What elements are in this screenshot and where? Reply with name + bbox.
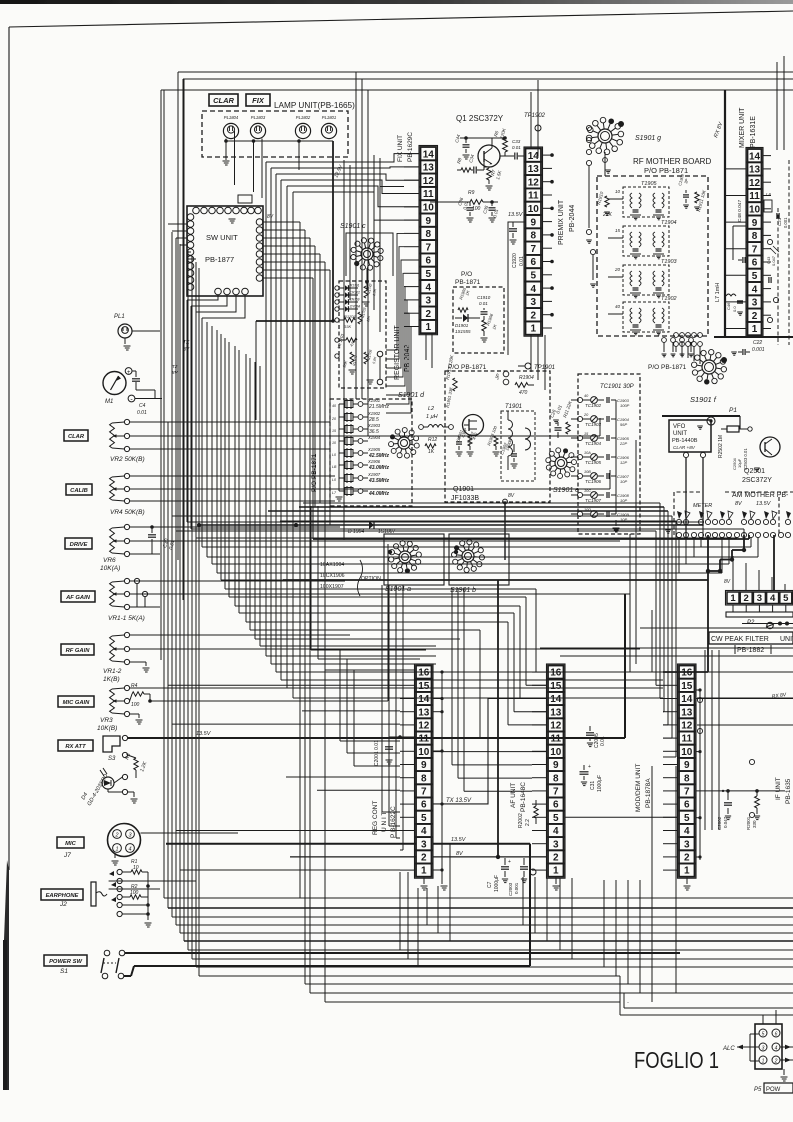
svg-text:C2001 0.01: C2001 0.01 xyxy=(374,740,380,766)
svg-text:SW UNIT: SW UNIT xyxy=(206,233,238,242)
svg-text:10B: 10B xyxy=(584,470,591,474)
svg-text:22P: 22P xyxy=(619,441,627,446)
wire mod dem pin14 right xyxy=(697,698,793,700)
svg-text:7: 7 xyxy=(553,787,559,798)
wire lamp drops xyxy=(225,139,227,157)
svg-text:8V: 8V xyxy=(508,493,515,499)
ground PL1 xyxy=(124,338,126,344)
wire mixer left stubs xyxy=(725,168,746,170)
svg-text:C1920: C1920 xyxy=(512,253,518,268)
svg-text:X1906: X1906 xyxy=(367,459,381,464)
svg-text:C33: C33 xyxy=(512,139,521,144)
wire pot elbow verticals xyxy=(599,418,601,436)
wire bottom bus horizontals xyxy=(164,897,793,899)
SW unit small fix box xyxy=(238,195,252,203)
svg-text:100: 100 xyxy=(131,702,140,708)
svg-text:15: 15 xyxy=(418,681,430,692)
wire outer frame loop 3 xyxy=(161,89,793,91)
svg-text:7: 7 xyxy=(684,787,690,798)
svg-text:PL1802: PL1802 xyxy=(296,115,311,120)
potentiometer VR3 xyxy=(124,685,129,690)
svg-text:2: 2 xyxy=(114,833,118,839)
svg-text:P/O PB-1871: P/O PB-1871 xyxy=(648,364,687,371)
svg-text:100P: 100P xyxy=(620,403,630,408)
svg-text:T1904: T1904 xyxy=(661,220,677,226)
wire reg pin long feeds xyxy=(168,684,400,686)
svg-text:4: 4 xyxy=(770,593,776,604)
coax plug P1 xyxy=(727,426,739,432)
svg-text:TC1906: TC1906 xyxy=(585,479,602,484)
svg-text:1: 1 xyxy=(421,866,427,877)
wire P1 heavy xyxy=(662,415,740,417)
svg-text:C22: C22 xyxy=(753,340,762,346)
ground tc bank xyxy=(615,520,617,526)
svg-text:J2: J2 xyxy=(59,901,67,908)
svg-text:S1901 d: S1901 d xyxy=(398,392,425,399)
rf board bottom contact row xyxy=(674,333,679,338)
svg-text:T1902: T1902 xyxy=(661,296,677,302)
capacitor C2005 0.01 xyxy=(586,732,594,734)
svg-text:AF GAIN: AF GAIN xyxy=(65,595,91,601)
svg-text:CLAR +8V: CLAR +8V xyxy=(673,445,696,450)
svg-text:13.5V: 13.5V xyxy=(451,837,467,843)
svg-text:1000μF: 1000μF xyxy=(494,875,500,892)
svg-text:10: 10 xyxy=(528,204,540,215)
svg-text:PB-1635: PB-1635 xyxy=(785,778,792,804)
rotary switch S1901g xyxy=(598,129,612,143)
svg-text:3: 3 xyxy=(421,839,427,850)
svg-text:U N I T: U N I T xyxy=(381,812,388,832)
svg-text:2: 2 xyxy=(774,1058,778,1064)
svg-text:REGISTOR UNIT: REGISTOR UNIT xyxy=(394,325,401,380)
svg-text:CLAR: CLAR xyxy=(213,96,234,105)
svg-text:1: 1 xyxy=(115,847,118,853)
svg-text:4: 4 xyxy=(684,826,690,837)
meter contact row upper xyxy=(676,519,681,524)
svg-text:VR1-2: VR1-2 xyxy=(103,668,122,675)
svg-text:5: 5 xyxy=(530,270,536,281)
svg-text:8V: 8V xyxy=(267,214,274,220)
svg-text:7: 7 xyxy=(425,242,431,253)
reg cont stubs xyxy=(400,671,415,673)
svg-text:8: 8 xyxy=(752,231,758,242)
rotary switch S1901f xyxy=(702,360,716,374)
svg-text:L0: L0 xyxy=(332,453,336,457)
wire main staircase xyxy=(186,300,188,522)
svg-text:MIC GAIN: MIC GAIN xyxy=(63,700,91,706)
trimmer TC1908 / C1909 10P xyxy=(577,511,582,516)
meter contact row lower xyxy=(676,532,681,537)
svg-text:13: 13 xyxy=(528,164,540,175)
connector strip MIXER 14pin xyxy=(746,148,763,337)
svg-text:1S1007: 1S1007 xyxy=(378,529,395,535)
capacitor C2002 0.047 xyxy=(727,791,729,800)
svg-text:10μF: 10μF xyxy=(737,458,742,468)
svg-text:J7: J7 xyxy=(63,852,71,859)
svg-text:S1: S1 xyxy=(60,968,68,975)
svg-text:4: 4 xyxy=(128,847,131,853)
svg-text:5: 5 xyxy=(421,813,427,824)
svg-text:VR3: VR3 xyxy=(100,717,113,724)
wire mod strip right rail xyxy=(699,690,701,860)
ground registor unit xyxy=(367,379,374,381)
ground PB-1871 box xyxy=(483,331,485,336)
rotary switch S1901a xyxy=(399,551,411,563)
svg-text:3: 3 xyxy=(425,296,431,307)
svg-text:15: 15 xyxy=(550,681,562,692)
svg-text:TX 13.5V: TX 13.5V xyxy=(446,798,472,804)
wire outer frame loop 2 xyxy=(183,78,793,80)
wire premix stubs right xyxy=(543,154,553,156)
svg-text:S1901 g: S1901 g xyxy=(635,135,661,142)
svg-text:20: 20 xyxy=(614,267,621,272)
rotary g stem xyxy=(604,152,606,176)
svg-text:4: 4 xyxy=(425,282,431,293)
wire mixer bottom heavy xyxy=(714,336,793,338)
wire 12.5V heavy drop from lamp xyxy=(332,206,334,321)
svg-text:40: 40 xyxy=(332,404,336,408)
ground SW unit top xyxy=(229,218,236,220)
control label EARPHONE xyxy=(41,889,83,900)
connector strip FIX unit 14pin xyxy=(419,146,438,335)
svg-text:M1: M1 xyxy=(105,399,113,405)
svg-text:P1: P1 xyxy=(729,407,737,414)
af unit stubs xyxy=(532,671,547,673)
svg-text:56P: 56P xyxy=(620,422,627,427)
svg-text:1: 1 xyxy=(684,866,690,877)
svg-text:10A: 10A xyxy=(584,451,591,455)
svg-text:UNIT: UNIT xyxy=(780,636,793,643)
rotary f contacts upper xyxy=(662,338,667,343)
svg-text:12: 12 xyxy=(418,721,430,732)
capacitor C1920 0.01 xyxy=(509,228,517,230)
svg-text:LAMP UNIT(PB-1665): LAMP UNIT(PB-1665) xyxy=(274,101,355,110)
connector strip PREMIX 14pin xyxy=(524,147,543,336)
trimmer TC1906 / C1907 10P xyxy=(577,473,582,478)
meter capacitor C4 xyxy=(132,378,140,380)
svg-text:C31: C31 xyxy=(590,781,596,790)
svg-text:CW PEAK FILTER: CW PEAK FILTER xyxy=(711,636,769,643)
svg-text:R1904: R1904 xyxy=(519,375,534,381)
wire AF pin5 to MOD xyxy=(565,816,678,818)
rotary S1901c drops xyxy=(366,268,368,290)
svg-text:RF GAIN: RF GAIN xyxy=(66,648,91,654)
wire meter heavy to P2 pin4 xyxy=(773,535,775,591)
svg-text:ALC: ALC xyxy=(722,1046,735,1052)
wire meter row drops xyxy=(678,537,680,573)
svg-text:1: 1 xyxy=(752,324,758,335)
svg-text:VFO: VFO xyxy=(673,424,686,430)
svg-text:1: 1 xyxy=(425,322,431,333)
trimmer TC1905 / C1906 12P xyxy=(577,454,582,459)
svg-text:VR2 50K(B): VR2 50K(B) xyxy=(110,456,145,463)
svg-text:L7 1mH: L7 1mH xyxy=(715,283,721,302)
wire R1 R2 junction xyxy=(147,872,149,914)
svg-text:2: 2 xyxy=(744,593,749,604)
ground VR3 xyxy=(130,713,139,715)
svg-text:1S1555: 1S1555 xyxy=(455,329,471,334)
switch S3 xyxy=(103,736,120,752)
svg-text:REG CONT: REG CONT xyxy=(372,801,379,835)
potentiometer VR1701 47K xyxy=(335,338,339,342)
svg-text:10AX1904: 10AX1904 xyxy=(320,562,344,568)
transformer group T1905 xyxy=(623,187,669,217)
ground reg cont xyxy=(423,878,425,884)
ALC left bracket wire xyxy=(749,1034,751,1061)
SW unit left pin column xyxy=(187,214,194,221)
svg-text:10K(B): 10K(B) xyxy=(97,725,117,732)
svg-text:T1901: T1901 xyxy=(505,404,522,410)
VFO unit box PB-1440B xyxy=(669,420,711,452)
wire fix bottom drops xyxy=(425,334,427,360)
wire FIX pin upper fan xyxy=(404,153,419,155)
svg-text:C4: C4 xyxy=(139,403,146,409)
wire rf bottom to s1901f xyxy=(675,346,677,352)
svg-text:P/O: P/O xyxy=(461,271,472,278)
svg-text:LB: LB xyxy=(332,465,337,469)
svg-text:10CX1906: 10CX1906 xyxy=(320,573,345,579)
svg-text:8: 8 xyxy=(553,773,559,784)
svg-text:PB-2044: PB-2044 xyxy=(569,205,576,232)
ground J7 xyxy=(114,853,116,858)
control label MIC GAIN xyxy=(58,696,94,707)
wire mod dem pin7 right xyxy=(697,790,786,792)
svg-text:10: 10 xyxy=(332,441,336,445)
svg-text:10K(A): 10K(A) xyxy=(100,565,120,572)
wire TX 13.5V to AF xyxy=(434,699,547,804)
svg-text:2: 2 xyxy=(425,309,431,320)
svg-text:0.001: 0.001 xyxy=(752,347,765,353)
box S1901a xyxy=(384,534,444,585)
svg-text:EARPHONE: EARPHONE xyxy=(46,893,80,899)
svg-text:13: 13 xyxy=(749,165,761,176)
svg-text:0.047: 0.047 xyxy=(771,255,776,266)
svg-text:POW: POW xyxy=(766,1087,781,1093)
wire 13.5V feed xyxy=(128,737,625,739)
svg-text:C2003: C2003 xyxy=(508,882,513,896)
svg-text:AF UNIT: AF UNIT xyxy=(510,783,517,808)
wire right of MOD strip horizontals xyxy=(697,671,793,673)
svg-text:L6: L6 xyxy=(766,192,772,197)
svg-text:6: 6 xyxy=(752,258,758,269)
svg-text:13: 13 xyxy=(550,707,562,718)
wire VFO heavy drops xyxy=(685,458,687,539)
transistor Q2501 xyxy=(760,437,780,457)
dashed box REGISTOR UNIT PB-2042 xyxy=(339,281,386,388)
svg-text:5: 5 xyxy=(553,813,559,824)
wire frame heavy vertical near mixer xyxy=(724,90,726,337)
svg-text:4: 4 xyxy=(775,1045,778,1051)
control label CLAR xyxy=(64,430,88,441)
wire M1 to bus xyxy=(135,398,162,400)
svg-text:1: 1 xyxy=(730,593,736,604)
wire power sw feeds xyxy=(125,952,680,954)
label FIX switch box xyxy=(246,94,270,106)
meter plus terminal xyxy=(125,368,132,375)
svg-text:0.047: 0.047 xyxy=(723,816,728,828)
control label POWER SW xyxy=(44,955,87,966)
svg-text:TC1905: TC1905 xyxy=(585,460,602,465)
svg-text:3: 3 xyxy=(530,297,536,308)
wire SW left pin links xyxy=(168,223,187,225)
ground ALC xyxy=(783,1069,785,1075)
svg-text:PB-1871: PB-1871 xyxy=(455,279,481,286)
svg-text:100: 100 xyxy=(472,206,481,212)
svg-text:PL1804: PL1804 xyxy=(224,115,239,120)
svg-text:8: 8 xyxy=(684,773,690,784)
svg-text:POWER SW: POWER SW xyxy=(49,959,82,965)
svg-text:FOGLIO 1: FOGLIO 1 xyxy=(634,1047,719,1073)
svg-text:C48 0.047: C48 0.047 xyxy=(737,200,743,222)
wire meter heavy staircase xyxy=(748,535,750,539)
SW unit top pin row xyxy=(193,207,200,214)
svg-text:33K: 33K xyxy=(344,324,351,329)
wire right side horizontals xyxy=(540,647,793,649)
svg-text:VR1-1 5K(A): VR1-1 5K(A) xyxy=(108,615,145,622)
svg-text:9: 9 xyxy=(421,760,427,771)
svg-text:S1901 f: S1901 f xyxy=(690,395,717,404)
svg-text:S1901 e: S1901 e xyxy=(553,487,579,494)
resistor R7 1.5K xyxy=(487,168,492,180)
resistor R2001 330 xyxy=(755,796,760,808)
transformer T1901 xyxy=(501,411,535,481)
svg-text:0.0: 0.0 xyxy=(732,306,737,312)
svg-text:9: 9 xyxy=(425,216,431,227)
svg-text:12: 12 xyxy=(423,176,435,187)
svg-text:6: 6 xyxy=(684,800,690,811)
wire lower reg feeds xyxy=(311,649,426,651)
svg-text:PB-1877: PB-1877 xyxy=(205,255,234,264)
svg-text:1K: 1K xyxy=(428,449,435,455)
svg-text:7: 7 xyxy=(530,244,536,255)
svg-text:R2502 1M: R2502 1M xyxy=(718,435,724,458)
resistor R1702 18K xyxy=(350,352,354,364)
svg-text:4: 4 xyxy=(752,284,758,295)
diode D1901 1S1555 xyxy=(455,317,462,319)
SW unit box PB-1877 xyxy=(187,206,263,296)
earphone jack J2 xyxy=(91,882,96,906)
ground J2 xyxy=(147,914,149,920)
wire lamp common xyxy=(226,140,333,142)
svg-text:RX ATT: RX ATT xyxy=(65,744,86,750)
resistor R1906 1K xyxy=(482,320,486,331)
svg-text:CALIB: CALIB xyxy=(70,488,88,494)
svg-text:3: 3 xyxy=(762,1045,765,1051)
svg-text:P5: P5 xyxy=(754,1087,762,1093)
rotary switch S1901c xyxy=(361,248,373,260)
ground af unit xyxy=(555,878,557,884)
ground R7 xyxy=(488,180,490,184)
wire FIX pin lower fan xyxy=(386,233,404,350)
registor unit right contacts xyxy=(377,351,383,357)
potentiometer VR4 xyxy=(124,473,129,478)
svg-text:D 1904: D 1904 xyxy=(348,529,364,535)
potentiometer VR1-2 xyxy=(124,632,129,637)
svg-text:10: 10 xyxy=(615,189,621,194)
transformer group T1902 xyxy=(623,302,669,332)
svg-text:+: + xyxy=(508,859,511,865)
mixer right dashed rail xyxy=(777,208,779,345)
svg-text:13.5V: 13.5V xyxy=(756,501,772,507)
wire tc drop verticals xyxy=(629,534,631,672)
ALC connector box xyxy=(755,1024,782,1069)
svg-text:X1903: X1903 xyxy=(367,423,381,428)
svg-text:14: 14 xyxy=(749,151,761,162)
wire reg pin10 to AF xyxy=(434,751,547,753)
box S1901c xyxy=(346,233,393,276)
capacitor C31 1000uF xyxy=(580,771,589,773)
svg-text:R1791: R1791 xyxy=(350,284,360,288)
trimmer TC1902 / C1903 100P xyxy=(577,397,582,402)
ground VFO xyxy=(697,425,703,427)
svg-text:AM MOTHER PB-: AM MOTHER PB- xyxy=(732,492,789,499)
svg-text:16: 16 xyxy=(418,668,430,679)
svg-text:11: 11 xyxy=(418,734,429,745)
jumper JP xyxy=(503,371,509,377)
vfo coax top xyxy=(707,417,715,425)
svg-text:10: 10 xyxy=(550,747,562,758)
svg-text:0.001: 0.001 xyxy=(514,882,519,894)
svg-text:6: 6 xyxy=(553,800,559,811)
svg-text:10: 10 xyxy=(418,747,430,758)
FET Q1901 xyxy=(463,415,484,436)
wire crystal box drop bundle xyxy=(310,506,312,650)
svg-text:FIX UNIT: FIX UNIT xyxy=(397,135,404,162)
svg-text:9: 9 xyxy=(684,760,690,771)
wire P2 top feeds xyxy=(732,556,734,590)
svg-text:11: 11 xyxy=(423,189,434,200)
svg-text:TP1902: TP1902 xyxy=(524,113,546,119)
trimmer TC1907 / C1908 10P xyxy=(577,492,582,497)
svg-text:0.01: 0.01 xyxy=(600,736,606,746)
dashed box RF mother board xyxy=(597,176,708,336)
wire s1901ab link xyxy=(388,550,392,554)
wire premix bottom drops xyxy=(530,335,532,372)
wire outer frame loop 1 xyxy=(178,71,793,73)
wire SW bottom pin drops xyxy=(187,295,218,300)
svg-text:DRIVE: DRIVE xyxy=(70,542,89,548)
svg-text:C2503 0.01: C2503 0.01 xyxy=(743,448,748,470)
svg-text:15: 15 xyxy=(615,228,621,233)
svg-text:T1903: T1903 xyxy=(661,259,678,265)
svg-text:T2: T2 xyxy=(172,364,178,369)
svg-text:11: 11 xyxy=(681,734,692,745)
svg-text:11: 11 xyxy=(749,191,760,202)
svg-text:14: 14 xyxy=(528,151,540,162)
svg-text:0.01: 0.01 xyxy=(479,301,488,306)
ground meter row xyxy=(668,521,674,523)
svg-text:PL1803: PL1803 xyxy=(251,115,266,120)
svg-text:TC1903: TC1903 xyxy=(585,422,602,427)
wire crystal drops to reg xyxy=(339,650,341,741)
svg-text:CLAR: CLAR xyxy=(68,434,85,440)
svg-text:6: 6 xyxy=(425,256,431,267)
svg-text:7: 7 xyxy=(421,787,427,798)
svg-text:16: 16 xyxy=(681,668,693,679)
svg-text:12: 12 xyxy=(528,177,540,188)
svg-text:P/O PB-1871: P/O PB-1871 xyxy=(448,364,487,371)
wire premix strip top feeds xyxy=(530,92,532,149)
svg-text:FIX: FIX xyxy=(252,96,265,105)
svg-text:470: 470 xyxy=(519,390,528,396)
svg-text:14: 14 xyxy=(550,694,562,705)
wire earphone contacts xyxy=(122,880,196,882)
dashed box crystal bank xyxy=(330,399,412,506)
wire right of MOD strip verticals xyxy=(704,650,706,830)
scan page top edge line xyxy=(9,11,793,27)
LED D4 xyxy=(102,777,114,789)
svg-text:10: 10 xyxy=(423,202,435,213)
